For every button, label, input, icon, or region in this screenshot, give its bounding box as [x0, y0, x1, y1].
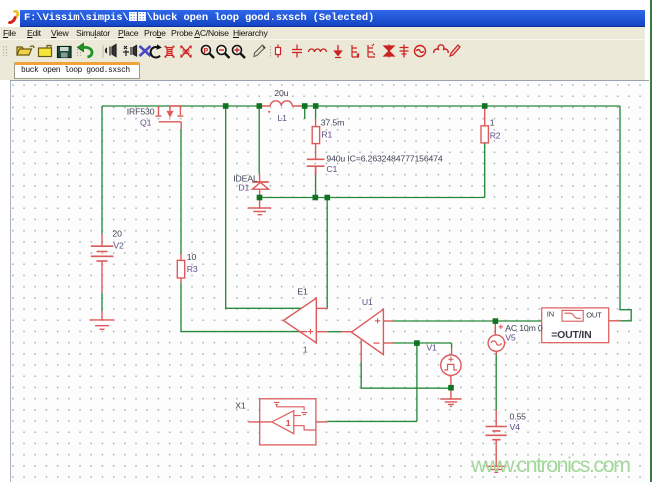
svg-text:V1: V1 [426, 343, 437, 353]
svg-text:10: 10 [187, 252, 197, 262]
svg-text:D1: D1 [238, 182, 249, 192]
wire R1 top [315, 106, 317, 119]
wire X1 riser [416, 343, 418, 421]
wire gate chain lower [181, 282, 300, 331]
svg-text:=OUT/IN: =OUT/IN [551, 329, 591, 341]
svg-text:R3: R3 [187, 264, 198, 274]
toolbar [0, 39, 645, 61]
node rail-R1 [313, 103, 319, 109]
watermark [471, 453, 630, 478]
wire U1 plus to V5 node [393, 320, 541, 322]
svg-text:Q1: Q1 [140, 118, 152, 128]
app icon [8, 10, 22, 24]
svg-text:IN: IN [547, 310, 554, 319]
title text [24, 12, 374, 24]
svg-text:X1: X1 [235, 401, 246, 411]
wire V2 top drop [101, 106, 103, 234]
svg-text:IRF530: IRF530 [127, 106, 155, 116]
wire gate chain upper [180, 130, 182, 255]
svg-text:20: 20 [112, 229, 122, 239]
svg-text:940u IC=6.2632484777156474: 940u IC=6.2632484777156474 [326, 153, 442, 163]
svg-text:AC 10m 0: AC 10m 0 [505, 323, 543, 333]
junction dots [223, 103, 498, 390]
node rail-R2 [482, 103, 488, 109]
wire U1 bottom to V1 gnd [361, 362, 451, 388]
op-amp U1 [342, 309, 394, 362]
wire top rail right [305, 105, 620, 107]
svg-text:1: 1 [303, 345, 308, 355]
transistor Q1 [156, 106, 184, 130]
wire E1 up [326, 198, 328, 309]
ground below D1 [248, 200, 271, 215]
diode D1 [252, 174, 269, 198]
resistor R1 [312, 119, 319, 159]
wire top rail left [102, 105, 259, 107]
svg-text:0.55: 0.55 [510, 412, 527, 422]
source V5 [488, 321, 504, 355]
node rail-D1 [257, 103, 263, 109]
svg-text:R2: R2 [490, 130, 501, 140]
wire R2 bottom [484, 143, 486, 198]
right green border line [650, 0, 652, 482]
wire E1 to U1 [328, 331, 342, 333]
wire C1 bottom [315, 175, 317, 198]
node U1minus-X1 [414, 340, 420, 346]
ground below V4 [486, 466, 507, 472]
op-amp E1 [283, 298, 327, 343]
capacitor C1 [307, 159, 325, 175]
svg-text:U1: U1 [362, 297, 373, 307]
wire U1 minus to V1 [393, 343, 451, 348]
svg-text:1: 1 [286, 418, 291, 428]
tab bar [0, 60, 645, 80]
svg-text:V2: V2 [113, 240, 124, 250]
svg-text:C1: C1 [326, 164, 337, 174]
node bus-C1 [313, 195, 319, 201]
wire right edge drop [620, 106, 631, 321]
battery V4 [486, 410, 507, 466]
svg-text:1: 1 [490, 118, 495, 128]
node rail-stub [302, 103, 308, 109]
svg-text:20u: 20u [274, 88, 288, 98]
wire X1 output run [328, 420, 417, 422]
battery V2 [91, 234, 114, 293]
wire stub node [304, 106, 306, 119]
svg-text:37.5m: 37.5m [321, 118, 344, 128]
ground below V2 [90, 311, 115, 329]
wire E1 minus loop [226, 106, 303, 308]
source V1 [441, 348, 461, 388]
title bar [20, 10, 645, 27]
resistor R2 [481, 107, 488, 143]
wire V5 to V4 [495, 354, 497, 410]
comparator block X1 [248, 399, 328, 445]
node bus-E1out [325, 195, 331, 201]
svg-text:V4: V4 [510, 422, 521, 432]
wire D1 drop [258, 106, 260, 174]
menu bar [0, 27, 645, 39]
ground below V1 [440, 389, 461, 406]
svg-text:OUT: OUT [586, 311, 602, 320]
node bus-D1 [257, 195, 263, 201]
svg-text:R1: R1 [321, 130, 332, 140]
resistor R3 [177, 254, 184, 282]
node rail-E1loop [223, 103, 229, 109]
wire output bus [257, 197, 485, 199]
node V1-gnd [448, 385, 454, 391]
svg-text:V5: V5 [505, 333, 516, 343]
svg-text:L1: L1 [277, 113, 287, 123]
node V5-IN [493, 318, 499, 324]
inductor L1 [259, 101, 304, 113]
block OUT/IN [542, 308, 621, 343]
wire V2 mid [101, 293, 103, 311]
svg-text:E1: E1 [297, 287, 308, 297]
